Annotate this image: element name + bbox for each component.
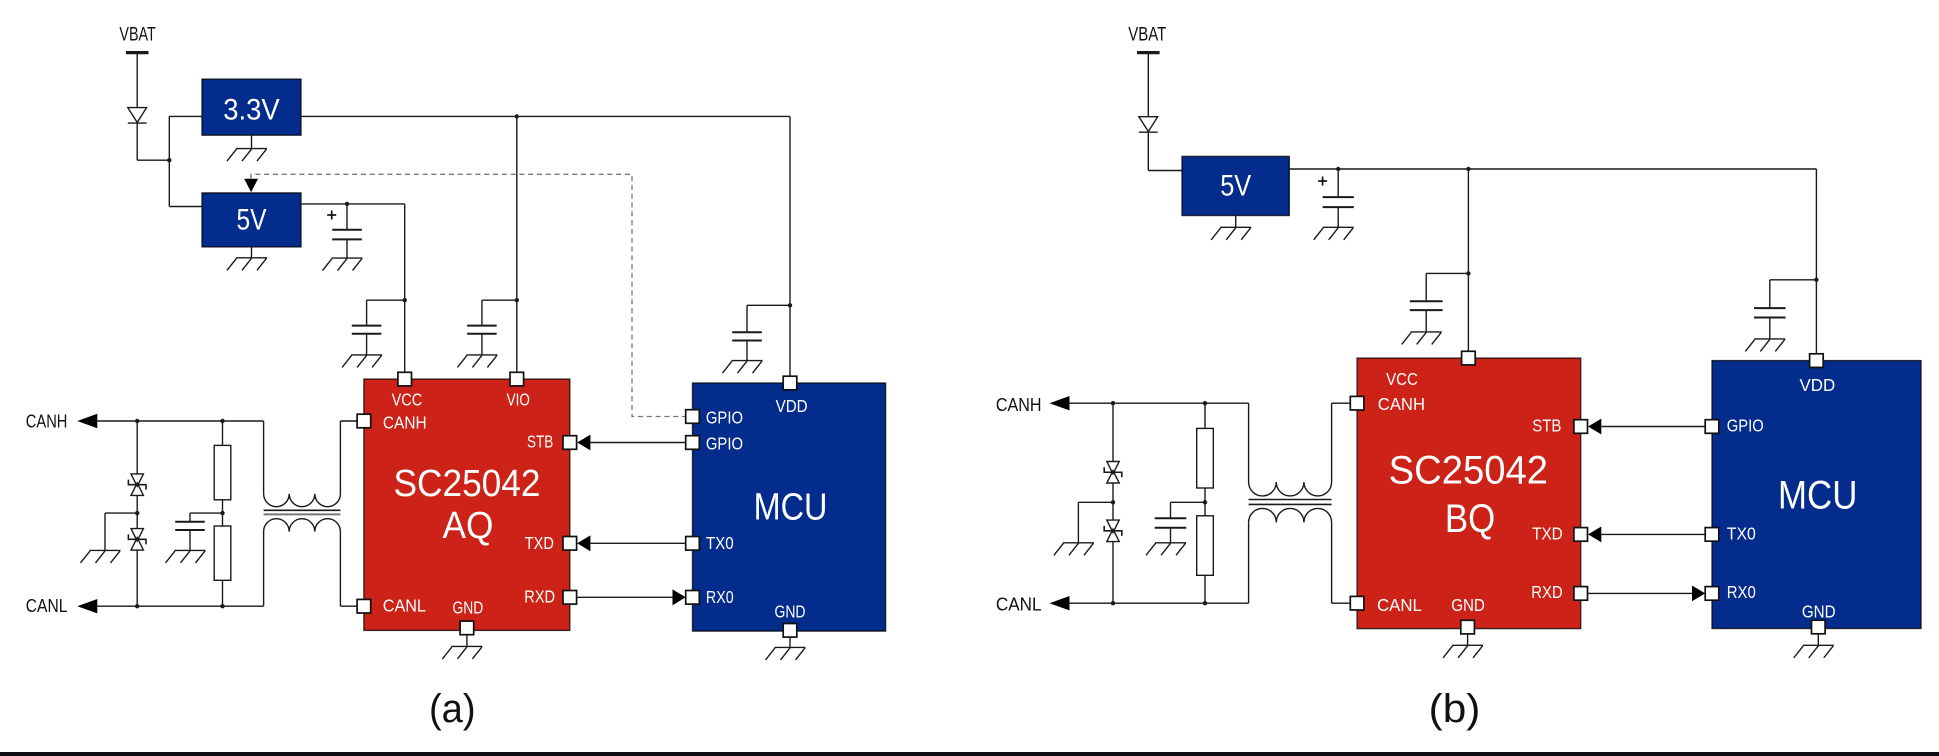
wire C4 to ground <box>746 341 748 361</box>
wire TVS midpoint to ground branch (b) <box>1078 501 1113 503</box>
wire D1 to corner <box>136 123 138 160</box>
wire D2 to corner <box>1147 132 1149 170</box>
svg-text:RX0: RX0 <box>706 587 734 607</box>
junction CANL termination (a) <box>220 604 224 608</box>
pin GPIO2 (a) <box>686 436 700 450</box>
ground below C4 <box>723 361 763 374</box>
ground below C7 <box>1402 332 1442 345</box>
pin CANL (a) <box>357 599 371 613</box>
CANL bus arrowhead (b) <box>1050 596 1070 610</box>
ground below C9 <box>1146 543 1186 556</box>
wire C1 top <box>346 204 348 230</box>
wire VDD supply vertical (b) <box>1815 169 1817 354</box>
svg-text:TX0: TX0 <box>1727 523 1756 543</box>
pin GND (b) <box>1461 620 1475 634</box>
TVS diode Z3 (b) <box>1104 462 1122 484</box>
wire TVS2 to CANL <box>136 550 138 606</box>
capacitor C9 (split termination b) <box>1155 518 1187 528</box>
svg-text:GPIO: GPIO <box>706 433 743 453</box>
svg-text:STB: STB <box>527 431 553 451</box>
wire C7 top <box>1425 273 1427 301</box>
svg-text:TXD: TXD <box>1532 523 1563 543</box>
wire choke L2 to CANH pin <box>1331 403 1333 482</box>
wire midpoint to C5 <box>190 512 223 514</box>
wire TVS ground drop <box>104 513 106 550</box>
svg-text:RX0: RX0 <box>1727 582 1756 602</box>
wire 3.3V to ground <box>251 135 253 148</box>
svg-text:CANL: CANL <box>383 596 426 616</box>
svg-text:CANH: CANH <box>26 410 68 431</box>
wire TVS ground drop (b) <box>1077 502 1079 543</box>
wire TVS midpoint to ground branch <box>105 512 137 514</box>
junction CANL termination (b) <box>1203 601 1207 605</box>
wire 3.3V rail <box>301 115 790 117</box>
pin CANL (b) <box>1350 596 1364 610</box>
wire TXD to TX0 (b) <box>1601 533 1705 535</box>
RXD arrowhead (a) <box>673 589 686 605</box>
wire choke L1 to CANH pin <box>339 421 341 494</box>
junction CANL TVS (a) <box>135 604 139 608</box>
junction VIO decoupling <box>515 298 519 302</box>
wire C3 to ground <box>366 334 368 355</box>
junction TVS midpoint (a) <box>135 511 139 515</box>
svg-text:GND: GND <box>1451 595 1485 615</box>
wire CANH (a) <box>97 420 263 422</box>
wire RXD to RX0 (b) <box>1588 592 1693 594</box>
pin VCC (b) <box>1462 351 1476 365</box>
svg-text:SC25042: SC25042 <box>394 463 541 505</box>
wire C1 to ground <box>346 239 348 258</box>
wire midpoint to C9 <box>1171 501 1206 503</box>
wire C5 to ground <box>189 531 191 551</box>
pin VCC (a) <box>398 372 412 386</box>
regulator U3 3.3V <box>202 79 301 135</box>
RXD arrowhead (b) <box>1692 586 1705 602</box>
svg-text:VDD: VDD <box>776 396 808 416</box>
capacitor C6 (5V bulk, polarized) <box>1323 197 1354 207</box>
pin TX0 (b) <box>1705 528 1719 542</box>
junction VDD decoupling <box>788 303 792 307</box>
wire TVS3 to TVS4 <box>1112 483 1114 520</box>
wire to regulator input node <box>137 159 169 161</box>
wire VDD supply vertical <box>789 116 791 376</box>
junction CANH termination (a) <box>220 419 224 423</box>
ground below 5V regulator <box>227 258 267 271</box>
ground below SC25042 AQ <box>442 646 482 659</box>
junction CANH TVS (b) <box>1111 401 1115 405</box>
pin RXD (b) <box>1574 587 1588 601</box>
diode D1 <box>128 108 147 124</box>
wire VCC supply vertical (b) <box>1467 169 1469 351</box>
wire R3 to R4 <box>1204 488 1206 516</box>
choke L1 (a) bottom winding <box>264 519 341 532</box>
junction termination midpoint (a) <box>220 511 224 515</box>
wire input bus vertical <box>168 116 170 206</box>
junction VCC decoupling (b) <box>1466 271 1470 275</box>
STB arrowhead (b) <box>1588 419 1601 435</box>
svg-text:VIO: VIO <box>507 390 530 410</box>
pin CANH (b) <box>1350 396 1364 410</box>
wire VIO supply vertical <box>516 116 518 372</box>
wire C2 top <box>481 300 483 325</box>
wire C6 to ground <box>1337 207 1339 227</box>
pin VDD (a) <box>783 376 797 390</box>
wire to C8 <box>1770 279 1817 281</box>
VBAT terminal <box>126 51 149 54</box>
wire to CANL pin (a) <box>340 605 357 607</box>
wire to 5V regulator input <box>169 206 202 208</box>
choke L1 (a) top winding <box>264 494 341 507</box>
wire CANH (b) <box>1069 402 1248 404</box>
ground below TVS (a) <box>81 550 121 563</box>
wire C6 top <box>1337 169 1339 197</box>
svg-text:3.3V: 3.3V <box>223 93 280 126</box>
wire choke L2 to CANL <box>1248 522 1250 603</box>
wire CANL (b) <box>1069 602 1248 604</box>
wire C8 top <box>1769 280 1771 308</box>
wire TXD to TX0 (a) <box>590 542 685 544</box>
wire C9 to ground <box>1170 528 1172 543</box>
wire C5 top <box>189 513 191 522</box>
svg-text:RXD: RXD <box>1531 582 1563 602</box>
svg-text:TXD: TXD <box>525 533 554 553</box>
STB arrowhead (a) <box>577 435 590 451</box>
capacitor C8 (VDD decoupling b) <box>1754 308 1786 317</box>
wire GND to ground (b) <box>1467 634 1469 645</box>
regulator U5 5V (b) <box>1182 156 1289 215</box>
pin VIO (a) <box>510 372 524 386</box>
ground below MCU (b) <box>1794 645 1834 658</box>
wire to CANH pin (a) <box>340 420 357 422</box>
resistor R3 (b) <box>1197 428 1214 488</box>
pin GND MCU (a) <box>783 624 797 638</box>
wire choke L2 to CANL pin <box>1331 522 1333 603</box>
TVS diode Z4 (b) <box>1104 520 1122 542</box>
ground below C1 <box>323 258 363 271</box>
pin GPIO1 (a) <box>686 410 700 424</box>
polarity + of C1 <box>327 211 336 220</box>
junction CANL TVS (b) <box>1111 601 1115 605</box>
svg-text:GPIO: GPIO <box>706 408 743 428</box>
wire STB to GPIO (b) <box>1601 426 1705 428</box>
wire to 3.3V regulator input <box>169 115 202 117</box>
wire TVS4 to CANL (b) <box>1112 542 1114 604</box>
ground below C3 <box>342 355 382 368</box>
junction 5V rail to C1 <box>345 202 349 206</box>
TXD arrowhead (a) <box>577 535 590 551</box>
wire R2 to CANL <box>222 580 224 606</box>
wire to C3 <box>367 299 405 301</box>
TXD arrowhead (b) <box>1588 527 1601 543</box>
junction regulator input node <box>167 158 171 162</box>
enable arrowhead into 5V regulator <box>244 179 258 193</box>
pin TX0 (a) <box>686 537 700 551</box>
ground below C2 <box>457 355 497 368</box>
svg-text:GND: GND <box>775 601 806 621</box>
wire STB to GPIO2 (a) <box>590 442 685 444</box>
svg-text:TX0: TX0 <box>706 533 734 553</box>
wire MCU GND to ground (b) <box>1817 634 1819 646</box>
wire C9 top <box>1170 502 1172 518</box>
wire VCC supply vertical <box>404 204 406 372</box>
capacitor C1 (5V bulk, polarized) <box>332 230 362 240</box>
svg-text:RXD: RXD <box>524 587 555 607</box>
wire CANH to choke L2 <box>1248 403 1250 482</box>
junction CANH termination (b) <box>1203 401 1207 405</box>
wire to C4 <box>747 304 790 306</box>
svg-text:VCC: VCC <box>392 390 423 410</box>
junction termination midpoint (b) <box>1203 500 1207 504</box>
TVS diode Z2 (a) <box>128 529 146 551</box>
pin GND MCU (b) <box>1812 620 1826 634</box>
svg-text:CANL: CANL <box>1377 595 1422 615</box>
pin GND (a) <box>460 621 474 635</box>
polarity + of C6 <box>1318 177 1327 186</box>
pin VDD MCU (b) <box>1810 354 1824 368</box>
CANH bus arrowhead (a) <box>77 414 97 428</box>
capacitor C2 (VIO decoupling) <box>467 326 497 334</box>
svg-text:CANL: CANL <box>996 593 1042 614</box>
pin STB (a) <box>563 436 577 450</box>
ground below TVS (b) <box>1054 543 1094 556</box>
wire choke L1 to CANL pin <box>339 532 341 607</box>
pin RX0 (a) <box>686 591 700 605</box>
wire to C2 <box>482 299 517 301</box>
svg-text:CANH: CANH <box>383 413 427 433</box>
wire to C7 <box>1426 272 1468 274</box>
svg-text:MCU: MCU <box>1778 473 1857 517</box>
ground below MCU (a) <box>766 647 806 660</box>
regulator U4 5V <box>202 193 301 247</box>
capacitor C7 (VCC decoupling b) <box>1410 301 1443 310</box>
wire 5V rail (b) <box>1289 168 1816 170</box>
svg-text:CANH: CANH <box>996 394 1042 415</box>
svg-text:CANL: CANL <box>26 595 68 616</box>
wire CANH to TVS1 <box>136 421 138 474</box>
choke L1 (a) core <box>264 509 341 511</box>
wire R4 to CANL (b) <box>1204 575 1206 603</box>
wire R1 to R2 <box>222 500 224 526</box>
pin RXD (a) <box>563 591 577 605</box>
pin CANH (a) <box>357 414 371 428</box>
wire CANH to R3 <box>1204 403 1206 428</box>
junction CANH TVS (a) <box>135 419 139 423</box>
wire CANL (a) <box>97 605 263 607</box>
wire C2 to ground <box>481 334 483 355</box>
wire CANH to R1 <box>222 421 224 445</box>
choke L2 (b) core <box>1249 499 1332 501</box>
wire RXD to RX0 (a) <box>577 596 673 598</box>
ground below C8 <box>1745 339 1785 352</box>
ground below C5 <box>166 550 206 563</box>
svg-text:(b): (b) <box>1429 687 1481 731</box>
choke L2 (b) bottom winding <box>1249 508 1332 522</box>
resistor R4 (b) <box>1197 516 1214 576</box>
MCU block (a) <box>693 383 886 631</box>
svg-text:SC25042: SC25042 <box>1389 448 1548 492</box>
junction 5V rail to C6 <box>1336 167 1340 171</box>
capacitor C4 (VDD decoupling) <box>732 332 762 340</box>
wire choke L1 to CANL <box>263 532 265 607</box>
junction VCC decoupling <box>403 298 407 302</box>
svg-text:GPIO: GPIO <box>1727 415 1764 435</box>
VBAT terminal <box>1137 51 1160 54</box>
svg-text:STB: STB <box>1532 415 1561 435</box>
svg-text:MCU: MCU <box>754 487 828 529</box>
wire VBAT to D2 <box>1147 53 1149 117</box>
wire 5V to ground (b) <box>1235 216 1237 228</box>
capacitor C3 (VCC decoupling) <box>352 326 382 334</box>
CANH bus arrowhead (b) <box>1050 396 1070 410</box>
junction VDD decoupling (b) <box>1814 278 1818 282</box>
choke L2 (b) top winding <box>1249 482 1332 496</box>
diode D2 <box>1139 117 1158 133</box>
svg-text:BQ: BQ <box>1445 497 1495 541</box>
wire C8 to ground <box>1769 318 1771 339</box>
junction 5V rail to VCC (b) <box>1466 167 1470 171</box>
dashed enable net from MCU GPIO to 5V regulator <box>251 174 686 416</box>
svg-text:VBAT: VBAT <box>1128 25 1166 46</box>
CANL bus arrowhead (a) <box>77 599 97 613</box>
wire to CANL pin (b) <box>1332 602 1351 604</box>
ground below 5V regulator (b) <box>1211 227 1251 240</box>
bottom border bar <box>0 752 1939 756</box>
wire C4 top <box>746 305 748 332</box>
pin RX0 (b) <box>1705 587 1719 601</box>
svg-text:VDD: VDD <box>1800 375 1836 395</box>
wire 5V rail <box>301 203 405 205</box>
wire 5V to ground <box>251 247 253 258</box>
junction TVS midpoint (b) <box>1111 500 1115 504</box>
resistor R1 (a) <box>214 445 231 499</box>
wire CANH to TVS3 <box>1112 403 1114 461</box>
junction 3.3V rail to VIO <box>515 114 519 118</box>
pin TXD (b) <box>1574 528 1588 542</box>
capacitor C5 (split termination) <box>175 522 205 530</box>
svg-text:VBAT: VBAT <box>119 25 156 46</box>
TVS diode Z1 (a) <box>128 474 146 496</box>
wire VBAT to D1 <box>136 53 138 108</box>
pin STB (b) <box>1574 420 1588 434</box>
svg-text:CANH: CANH <box>1378 394 1425 414</box>
MCU block (b) <box>1712 361 1921 629</box>
pin GPIO (b) <box>1705 420 1719 434</box>
svg-text:5V: 5V <box>1220 170 1251 203</box>
resistor R2 (a) <box>214 526 231 580</box>
ground below 3.3V regulator <box>227 149 267 162</box>
wire C7 to ground <box>1425 310 1427 332</box>
transceiver U1 SC25042 AQ <box>364 379 570 630</box>
pin TXD (a) <box>563 537 577 551</box>
wire to 5V regulator input (b) <box>1148 170 1182 172</box>
ground below SC25042 BQ <box>1443 645 1483 658</box>
wire TVS1 to TVS2 <box>136 495 138 528</box>
svg-text:(a): (a) <box>429 687 476 731</box>
svg-text:GND: GND <box>1802 601 1836 621</box>
wire to CANH pin (b) <box>1332 402 1351 404</box>
svg-text:VCC: VCC <box>1386 369 1418 389</box>
wire MCU GND to ground (a) <box>789 637 791 647</box>
wire CANH to choke L1 <box>263 421 265 494</box>
ground below C6 <box>1314 227 1354 240</box>
transceiver U2 SC25042 BQ <box>1357 358 1581 628</box>
svg-text:AQ: AQ <box>443 505 494 547</box>
svg-text:5V: 5V <box>237 203 267 236</box>
wire C3 top <box>366 300 368 325</box>
wire GND to ground (a) <box>466 635 468 647</box>
svg-text:GND: GND <box>453 598 484 618</box>
